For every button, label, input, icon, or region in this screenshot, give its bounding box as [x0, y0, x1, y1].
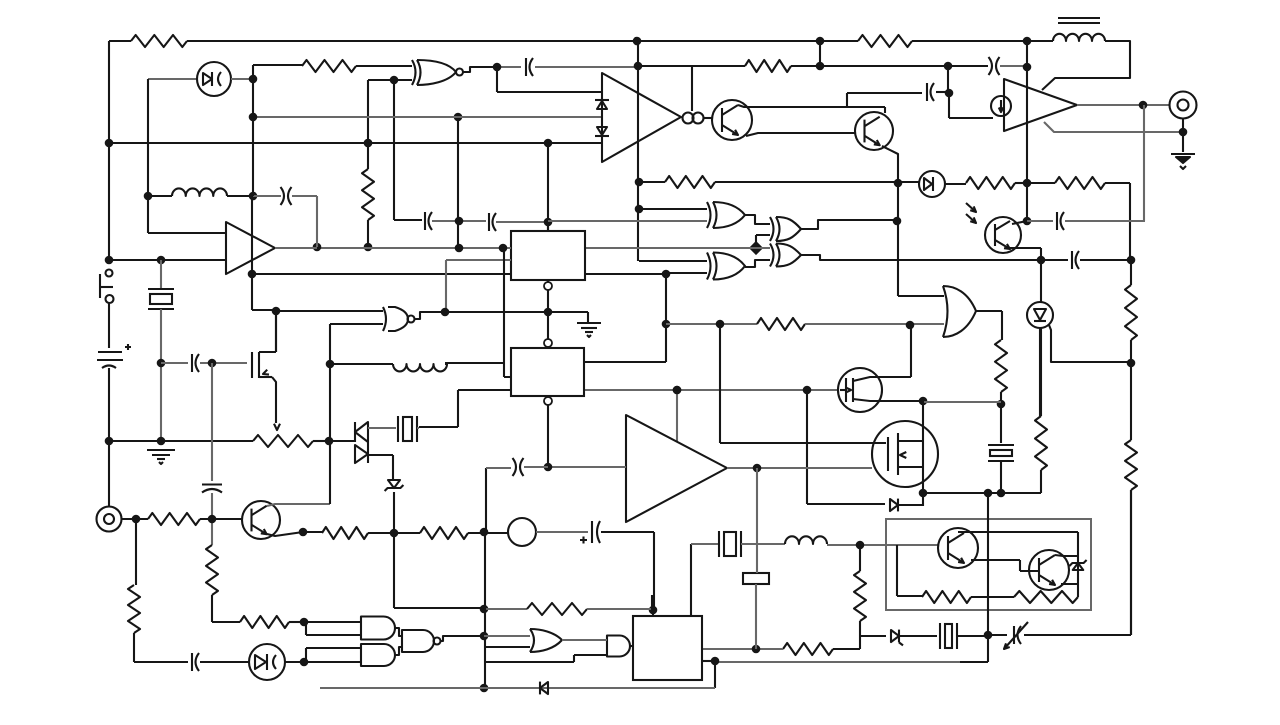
node — [662, 320, 671, 329]
wire — [187, 40, 858, 42]
op-amp U9 — [626, 415, 727, 522]
wire — [252, 196, 276, 310]
diode D6 — [891, 630, 903, 646]
wire — [976, 311, 1002, 340]
node — [544, 308, 553, 317]
wire — [306, 648, 361, 662]
node — [1023, 217, 1032, 226]
wire — [1000, 404, 1002, 443]
node — [716, 320, 725, 329]
resistor R16 — [322, 527, 368, 539]
crystal Y5 — [940, 623, 957, 649]
wire — [148, 78, 197, 80]
resistor R18 — [854, 571, 866, 621]
wire — [468, 532, 508, 534]
wire — [833, 545, 860, 649]
resistor R8 — [1125, 285, 1137, 340]
wire — [289, 621, 304, 623]
resistor R3 — [745, 60, 791, 72]
wire — [394, 80, 422, 220]
wire — [368, 79, 394, 81]
node — [673, 386, 682, 395]
lamp B1 — [508, 518, 536, 546]
wire — [109, 40, 131, 42]
resistor R4 — [302, 60, 356, 72]
wire — [109, 142, 601, 144]
node — [1127, 256, 1136, 265]
node — [364, 243, 373, 252]
wire — [134, 661, 188, 663]
wire — [666, 323, 757, 325]
wire — [484, 608, 527, 610]
arrow — [274, 424, 280, 430]
wire — [304, 661, 361, 663]
diode D3 — [595, 127, 609, 136]
node — [480, 528, 489, 537]
diode D12 — [249, 644, 285, 680]
node — [493, 63, 502, 72]
ground GND1 — [1171, 154, 1195, 169]
resistor R17 — [420, 527, 468, 539]
wire — [805, 323, 944, 325]
wire — [320, 687, 715, 689]
wire — [601, 532, 654, 610]
wire — [432, 220, 486, 222]
wire — [161, 362, 188, 364]
wire — [275, 247, 511, 249]
open pin — [544, 397, 552, 405]
wire — [922, 401, 924, 506]
wire — [1039, 327, 1041, 416]
transistor M3 — [252, 352, 276, 378]
crystal Y6 — [719, 531, 741, 557]
transistor Q5 — [1029, 550, 1069, 590]
wire — [912, 40, 1027, 42]
wire — [368, 427, 396, 429]
node — [364, 139, 373, 148]
inverter bubbles — [683, 113, 704, 124]
wire — [548, 466, 626, 468]
connector J2 — [1170, 92, 1197, 119]
crystal Y4 — [398, 416, 417, 442]
wire — [1012, 221, 1027, 224]
wire — [652, 610, 654, 616]
node — [1023, 179, 1032, 188]
wire — [819, 41, 821, 66]
node — [248, 270, 257, 279]
wire — [121, 518, 148, 520]
wire — [584, 274, 666, 362]
wire — [756, 235, 770, 248]
wire — [1000, 461, 1002, 492]
resistor R7 — [1055, 177, 1105, 189]
wire — [275, 311, 277, 352]
wire — [329, 324, 331, 504]
wire — [882, 400, 923, 402]
ic IC1 — [511, 231, 585, 280]
node — [480, 632, 489, 641]
wire — [304, 621, 361, 623]
inductor L2 — [1053, 34, 1105, 41]
wire — [630, 645, 633, 647]
resistor R22 — [527, 603, 587, 615]
capacitor C8 — [192, 354, 199, 372]
node — [325, 437, 334, 446]
wire — [898, 183, 944, 296]
wire — [536, 531, 588, 533]
wire — [267, 532, 303, 536]
transistor Q4 — [938, 528, 978, 568]
node — [984, 631, 993, 640]
wire — [1055, 555, 1078, 556]
wire — [584, 389, 838, 391]
wire — [988, 490, 1131, 635]
wire — [960, 493, 988, 662]
wire — [497, 67, 601, 92]
wire — [160, 309, 162, 441]
wire — [947, 66, 949, 93]
resistor R9 — [1125, 440, 1137, 490]
inductor L1 — [172, 188, 227, 196]
node — [673, 386, 682, 395]
node — [1023, 63, 1032, 72]
wire — [1040, 260, 1042, 303]
wire — [547, 143, 549, 231]
capacitor C12 — [743, 573, 769, 584]
op-amp U1 — [602, 73, 681, 162]
resistor R19 — [783, 643, 833, 655]
node — [803, 386, 812, 395]
inductor L3 — [785, 536, 827, 544]
node — [635, 178, 644, 187]
wire — [715, 661, 960, 663]
wire — [1027, 220, 1053, 222]
node — [856, 541, 865, 550]
capacitor C4 — [425, 212, 432, 230]
wire — [882, 146, 898, 183]
wire — [958, 532, 1078, 597]
resistor R15 — [240, 616, 289, 628]
wire — [637, 41, 639, 66]
node — [997, 400, 1006, 409]
node — [455, 244, 464, 253]
node — [945, 89, 954, 98]
ic IC2 — [511, 348, 584, 396]
wire — [1015, 182, 1027, 184]
node — [300, 618, 309, 627]
wire — [801, 255, 1068, 260]
wire — [860, 635, 886, 637]
wire — [1000, 392, 1002, 404]
wire — [252, 273, 511, 275]
wire — [414, 312, 445, 319]
wire — [666, 272, 707, 274]
wire — [267, 504, 330, 506]
node — [544, 218, 553, 227]
node — [1023, 37, 1032, 46]
wire — [1026, 41, 1028, 221]
xor gate U5 — [770, 217, 801, 241]
wire — [1000, 65, 1027, 67]
capacitor C13 — [513, 458, 524, 476]
node — [105, 256, 114, 265]
wire — [1105, 183, 1130, 260]
wire — [306, 622, 361, 635]
node — [749, 241, 763, 255]
wire — [109, 259, 226, 261]
wire — [496, 221, 548, 223]
wire — [108, 41, 110, 143]
diode D1 — [197, 62, 231, 96]
wire — [1049, 325, 1131, 362]
wire — [368, 532, 420, 534]
node — [544, 463, 553, 472]
resistor R2 — [858, 35, 912, 47]
wire — [971, 596, 1014, 598]
wire — [715, 181, 919, 183]
wire — [801, 220, 897, 229]
wire — [211, 493, 213, 545]
transistor Q3 — [242, 501, 280, 539]
diode D2 — [595, 100, 609, 109]
node — [105, 437, 114, 446]
node — [249, 192, 258, 201]
wire — [394, 79, 412, 81]
node — [816, 37, 825, 46]
node — [649, 606, 658, 615]
wire — [651, 595, 653, 610]
wire — [108, 303, 110, 348]
nand gate U13 — [402, 630, 441, 652]
resistor R14 — [206, 545, 218, 595]
wire — [200, 518, 243, 520]
node — [944, 62, 953, 71]
wire — [585, 273, 666, 275]
wire — [1061, 583, 1078, 585]
wire — [1027, 40, 1053, 42]
inductor core — [1058, 18, 1100, 23]
node — [390, 529, 399, 538]
wire — [547, 222, 549, 231]
wire — [714, 661, 716, 688]
wire — [936, 91, 948, 93]
wire — [1130, 260, 1132, 363]
wire — [923, 401, 1001, 403]
wire — [547, 396, 549, 467]
wire — [276, 310, 383, 312]
op-amp U0 — [226, 222, 275, 274]
node — [634, 62, 643, 71]
wire — [691, 543, 719, 545]
node — [364, 139, 373, 148]
wire — [253, 196, 317, 247]
wire — [847, 93, 922, 107]
wire — [690, 544, 692, 616]
wire — [587, 608, 653, 610]
wire — [330, 363, 393, 365]
node — [499, 244, 508, 253]
node — [249, 113, 258, 122]
open pin — [544, 282, 552, 290]
wire — [691, 66, 693, 111]
and gate U15 — [607, 636, 630, 657]
node — [480, 684, 489, 693]
wire — [486, 467, 511, 469]
wire — [446, 260, 511, 312]
capacitor C9 — [202, 485, 222, 493]
wire — [949, 93, 993, 118]
wire — [1065, 220, 1145, 222]
wire — [884, 107, 886, 113]
node — [816, 62, 825, 71]
node — [893, 217, 902, 226]
op-amp U3 — [1004, 79, 1077, 131]
wire — [395, 647, 402, 655]
wire — [535, 66, 638, 68]
wire — [457, 117, 459, 248]
node — [919, 397, 928, 406]
node — [157, 437, 166, 446]
node — [662, 270, 671, 279]
node — [272, 307, 281, 316]
wire — [900, 635, 937, 637]
wire — [330, 323, 383, 325]
wire — [285, 661, 304, 663]
wire — [639, 181, 665, 183]
wire — [148, 195, 253, 197]
wire — [702, 660, 715, 662]
zener D7 — [1069, 560, 1086, 570]
transistor Q1 — [712, 100, 752, 140]
wire — [1143, 105, 1145, 221]
capacitor C10 polarized — [580, 521, 600, 544]
node — [1127, 359, 1136, 368]
wire — [897, 545, 922, 596]
wire — [445, 363, 504, 364]
wire — [638, 65, 745, 67]
wire — [211, 363, 213, 481]
wire — [200, 362, 247, 364]
wire — [108, 441, 110, 506]
wire — [899, 504, 923, 506]
wire — [368, 455, 393, 479]
node — [1037, 256, 1046, 265]
resistor R24 — [148, 513, 200, 525]
wire — [1077, 104, 1169, 106]
capacitor C15 polarized — [97, 344, 131, 368]
node — [480, 605, 489, 614]
node — [390, 76, 399, 85]
phototransistor Q6 — [966, 203, 1021, 253]
module box — [886, 519, 1091, 610]
node — [894, 179, 903, 188]
crystal Y3 — [988, 445, 1014, 461]
node — [144, 192, 153, 201]
wire — [547, 280, 549, 312]
wire — [356, 65, 412, 67]
wire — [135, 519, 137, 585]
diode D5 — [890, 499, 898, 512]
wire — [1130, 363, 1132, 635]
ic IC3 — [633, 616, 702, 680]
wire — [484, 635, 530, 637]
wire — [1040, 328, 1042, 493]
wire — [200, 661, 249, 663]
triac D10 — [355, 422, 368, 463]
wire — [945, 183, 966, 185]
wire — [419, 390, 511, 427]
ground GND3 — [147, 450, 175, 464]
wire — [133, 633, 135, 662]
capacitor C2 — [989, 57, 1000, 75]
wire — [676, 390, 678, 442]
wire — [756, 468, 757, 649]
or gate U8 — [943, 286, 976, 337]
wire — [702, 648, 783, 650]
node — [313, 243, 322, 252]
xor gate U4 — [707, 202, 745, 228]
node — [906, 321, 915, 330]
wire — [367, 220, 369, 247]
wire — [548, 220, 707, 222]
wire — [367, 80, 369, 169]
op-amp input marker — [991, 96, 1011, 116]
wire — [253, 116, 601, 118]
wire — [445, 248, 511, 377]
node — [997, 489, 1006, 498]
wire — [231, 78, 253, 80]
wire — [727, 467, 872, 469]
xor gate U6 — [770, 244, 801, 267]
xnor gate U2 — [412, 60, 463, 85]
wire — [253, 64, 302, 66]
wire — [637, 66, 639, 209]
wire — [585, 247, 770, 249]
crystal Y2 — [148, 289, 174, 309]
wire — [303, 531, 322, 533]
resistor R20 — [922, 591, 971, 603]
resistor R5 — [362, 169, 374, 220]
node — [208, 359, 217, 368]
wire — [638, 209, 707, 261]
wire — [160, 260, 162, 288]
wire — [485, 468, 486, 688]
resistor R23 — [128, 585, 140, 633]
node — [208, 515, 217, 524]
inductor L4 — [393, 364, 447, 371]
capacitor C3 — [281, 187, 292, 205]
wire — [562, 639, 607, 641]
wire — [108, 143, 110, 260]
node — [157, 256, 166, 265]
wire — [484, 646, 530, 648]
wire — [395, 628, 402, 636]
connector J1 — [97, 507, 122, 532]
wire — [745, 260, 770, 267]
and gate U12 — [361, 644, 395, 666]
node — [635, 205, 644, 214]
transistor M1 — [838, 368, 882, 412]
node — [249, 75, 258, 84]
node — [157, 359, 166, 368]
transistor Q2 — [855, 112, 893, 150]
resistor R26 — [665, 176, 715, 188]
nand gate U10 — [383, 307, 415, 331]
wire — [738, 105, 885, 107]
wire — [745, 215, 770, 224]
wire — [1182, 119, 1184, 152]
wire — [971, 560, 1039, 571]
